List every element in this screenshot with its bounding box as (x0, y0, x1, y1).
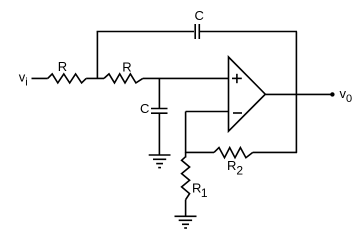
wire (185, 200, 187, 216)
svg-text:v0: v0 (340, 86, 353, 105)
op-amp U1 (229, 57, 266, 131)
resistor R (input) (48, 74, 86, 83)
wire (32, 77, 48, 79)
resistor R1 (182, 157, 190, 200)
wire (143, 77, 229, 79)
wire (265, 93, 330, 95)
resistor R (second) (104, 74, 143, 83)
wire (186, 111, 229, 113)
svg-text:R1: R1 (192, 180, 208, 200)
svg-text:C: C (195, 8, 204, 23)
ground (shunt C) (149, 155, 171, 168)
wire (97, 31, 194, 33)
resistor R2 (214, 148, 253, 158)
svg-text:vi: vi (19, 69, 28, 88)
node B (junction to shunt C) (158, 78, 160, 108)
svg-text:R: R (122, 59, 131, 74)
node v0 terminal (330, 92, 334, 96)
svg-text:R2: R2 (227, 158, 243, 178)
wire (185, 151, 214, 153)
wire (253, 151, 297, 153)
svg-text:C: C (140, 101, 149, 116)
node A (junction of R, R, C) (96, 32, 98, 80)
svg-text:R: R (58, 59, 67, 74)
wire (86, 77, 104, 79)
wire (295, 32, 297, 153)
wire (200, 31, 297, 33)
capacitor C (top feedback) (195, 24, 199, 39)
pin - (inverting) (233, 112, 242, 114)
pin + (non-inverting) (232, 74, 242, 83)
wire (158, 113, 160, 155)
ground (R1) (175, 216, 197, 228)
wire (185, 152, 187, 157)
capacitor C (shunt) (151, 109, 168, 114)
wire (185, 112, 187, 153)
